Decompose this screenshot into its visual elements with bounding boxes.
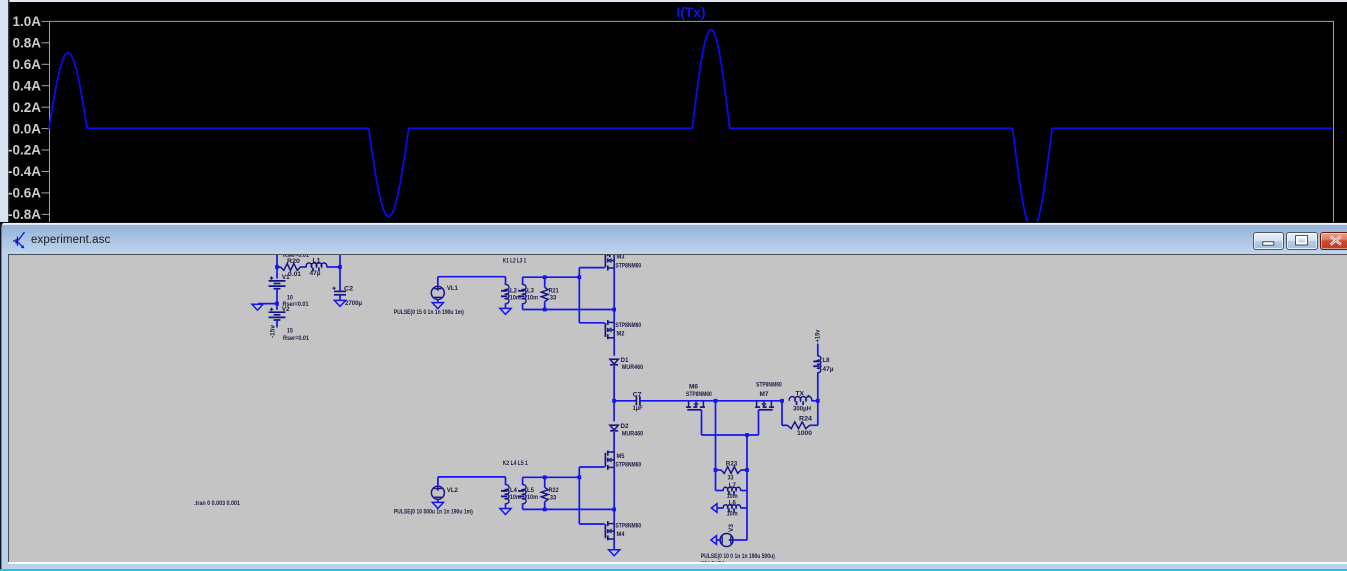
svg-text:0.0A: 0.0A — [12, 121, 41, 136]
svg-text:33: 33 — [549, 494, 556, 501]
svg-text:L4: L4 — [510, 487, 517, 494]
svg-text:STP8NM60: STP8NM60 — [615, 461, 641, 468]
svg-text:PULSE(0 10 0 1n 1n 190u 500u): PULSE(0 10 0 1n 1n 190u 500u) — [700, 553, 774, 560]
svg-text:VL2: VL2 — [447, 487, 458, 494]
svg-text:L7: L7 — [728, 482, 735, 489]
svg-text:47µ: 47µ — [309, 270, 320, 277]
svg-text:300µH: 300µH — [793, 405, 811, 412]
svg-text:V2: V2 — [281, 306, 289, 313]
svg-text:I(Tx): I(Tx) — [677, 4, 706, 20]
svg-text:STP8NM60: STP8NM60 — [686, 391, 712, 398]
svg-text:10m: 10m — [509, 294, 520, 301]
svg-text:Rser=0.01: Rser=0.01 — [283, 335, 309, 342]
svg-text:K3 L6 L7 1: K3 L6 L7 1 — [700, 560, 724, 561]
svg-text:STP8NM60: STP8NM60 — [615, 522, 641, 529]
svg-text:-0.2A: -0.2A — [8, 143, 41, 158]
svg-text:D2: D2 — [620, 423, 628, 430]
svg-text:TX: TX — [795, 390, 804, 397]
svg-text:M7: M7 — [759, 391, 768, 398]
svg-text:K1 L2 L3 1: K1 L2 L3 1 — [502, 257, 526, 264]
svg-text:33: 33 — [727, 474, 733, 481]
svg-text:C2: C2 — [344, 285, 353, 292]
svg-text:0.8A: 0.8A — [12, 36, 41, 51]
svg-text:M3: M3 — [616, 254, 624, 261]
svg-text:STP8NM60: STP8NM60 — [615, 262, 641, 269]
svg-text:0.4A: 0.4A — [12, 78, 41, 93]
svg-text:2700µ: 2700µ — [345, 300, 362, 307]
svg-text:D1: D1 — [620, 357, 628, 364]
svg-text:33: 33 — [549, 294, 556, 301]
svg-text:47µ: 47µ — [822, 366, 833, 373]
svg-text:-0.6A: -0.6A — [8, 186, 41, 201]
svg-text:M5: M5 — [616, 453, 624, 460]
svg-text:R21: R21 — [548, 287, 558, 294]
svg-text:.tran 0 0.003 0.001: .tran 0 0.003 0.001 — [194, 500, 240, 507]
svg-text:10m: 10m — [509, 494, 520, 501]
svg-text:PULSE(0 15 0 1n 1n 190u 1m): PULSE(0 15 0 1n 1n 190u 1m) — [393, 309, 463, 316]
svg-text:0.01: 0.01 — [288, 271, 301, 278]
svg-text:15: 15 — [287, 327, 293, 334]
svg-text:0.2A: 0.2A — [12, 100, 41, 115]
svg-text:-0.8A: -0.8A — [8, 207, 41, 222]
svg-text:R23: R23 — [725, 460, 737, 467]
svg-text:10m: 10m — [527, 494, 538, 501]
svg-text:L5: L5 — [527, 487, 534, 494]
svg-text:STP8NM60: STP8NM60 — [756, 381, 782, 388]
svg-text:-15v: -15v — [269, 324, 276, 337]
svg-text:Rser=0.01: Rser=0.01 — [283, 254, 309, 259]
svg-text:MUR460: MUR460 — [622, 430, 643, 437]
svg-text:10m: 10m — [527, 294, 538, 301]
svg-text:-0.4A: -0.4A — [8, 164, 41, 179]
svg-text:+15v: +15v — [814, 329, 821, 342]
svg-text:L1: L1 — [312, 257, 320, 264]
svg-text:R22: R22 — [548, 487, 558, 494]
svg-text:1000: 1000 — [797, 430, 812, 437]
svg-text:K2 L4 L5 1: K2 L4 L5 1 — [502, 460, 527, 467]
svg-text:MUR460: MUR460 — [622, 364, 643, 371]
svg-text:L8: L8 — [822, 357, 829, 364]
svg-text:L6: L6 — [728, 499, 735, 506]
svg-text:M4: M4 — [616, 531, 624, 538]
svg-text:V3: V3 — [728, 523, 735, 531]
svg-text:M2: M2 — [616, 330, 624, 337]
svg-text:C7: C7 — [632, 391, 641, 398]
svg-text:PULSE(0 10 500u 1n 1n 190u 1m): PULSE(0 10 500u 1n 1n 190u 1m) — [393, 508, 472, 515]
svg-text:V1: V1 — [281, 274, 289, 281]
svg-text:M6: M6 — [689, 383, 698, 390]
svg-text:STP8NM60: STP8NM60 — [615, 322, 641, 329]
svg-text:10m: 10m — [726, 510, 737, 517]
svg-text:VL1: VL1 — [447, 285, 458, 292]
svg-text:R24: R24 — [799, 415, 812, 422]
svg-text:0.6A: 0.6A — [12, 57, 41, 72]
svg-text:1.0A: 1.0A — [12, 14, 41, 29]
svg-text:1µF: 1µF — [632, 405, 642, 412]
